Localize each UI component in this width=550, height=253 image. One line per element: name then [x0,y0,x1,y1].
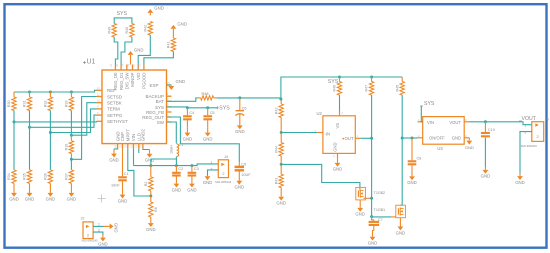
ground GND below U1 GND2 pin [143,149,154,163]
svg-text:GND2: GND2 [141,128,146,141]
svg-text:GND: GND [407,180,417,185]
svg-text:C7: C7 [378,218,383,222]
ground GND below R36 [46,183,56,201]
ground GND below C8 [407,171,417,185]
wire col1 down [13,122,15,170]
wire R42 to U1 VID pin [138,35,150,65]
svg-text:2: 2 [537,135,539,139]
capacitor C7 [369,217,383,233]
op-amp U2 [314,111,360,159]
svg-text:U3: U3 [437,146,443,151]
wire R10 bottom to U1 SETSD [71,97,96,160]
svg-text:SETPG: SETPG [107,113,123,118]
wire col4 tap to U1 SETBK [71,103,96,136]
net label SYS (rail) [325,77,338,85]
wire C10 to ground [484,139,486,167]
svg-text:GND: GND [109,157,119,162]
voltage regulator U3 [418,117,470,151]
svg-text:R2: R2 [144,182,148,187]
wire SYS bracket to R49/R40 [114,18,132,24]
wire U1 VIN to input bus [133,149,135,166]
svg-text:M20-9990246: M20-9990246 [521,144,538,148]
svg-text:10uH: 10uH [170,145,174,154]
svg-text:GND: GND [146,227,156,232]
svg-text:VIN: VIN [131,134,136,141]
svg-text:REF: REF [107,88,116,93]
resistor R36 [44,170,53,184]
svg-text:BAT: BAT [156,99,165,104]
svg-text:R31: R31 [23,101,27,108]
svg-text:GND: GND [46,197,56,202]
junction rail at R47 [370,76,373,79]
svg-text:SYS: SYS [117,11,128,17]
ground GND above U1 MINOP pin [128,47,144,64]
svg-text:GND: GND [276,201,286,206]
svg-text:R42: R42 [143,25,147,32]
svg-text:10nF: 10nF [111,183,120,187]
ground GND below J4 pin2 [203,176,213,186]
junction T1G$1 gate / C7 [370,215,373,218]
wire L1 bottom to bus [175,157,177,166]
resistor R49 [107,24,116,38]
wire U1 SW to L1 [167,122,177,143]
resistor R41 [167,38,176,52]
svg-text:GND: GND [98,241,108,246]
svg-text:C6: C6 [242,107,247,111]
op-amp U1 ADP5092 energy harvester [83,59,172,149]
svg-text:T1G$2: T1G$2 [374,191,386,195]
svg-text:10UF: 10UF [241,173,251,177]
svg-text:GND: GND [203,136,213,141]
transistor T1G$1 [374,205,406,224]
svg-text:T1G$1: T1G$1 [374,208,386,212]
svg-text:GND: GND [355,212,365,217]
svg-text:R45: R45 [395,85,399,92]
junction bus at C2 [175,164,178,167]
junction C8 [411,137,414,140]
wire SYS to U3 VIN [421,106,422,122]
ground GND below C1 [118,188,128,203]
resistor R44 [274,133,283,165]
junction col1 tap [13,120,16,123]
svg-text:R34: R34 [7,173,11,180]
svg-text:GND: GND [154,5,164,10]
svg-text:R10: R10 [65,144,69,151]
svg-text:DIS_SW: DIS_SW [125,72,130,90]
svg-text:VS: VS [335,123,340,129]
capacitor C4 [183,108,194,128]
svg-text:SYS: SYS [219,106,230,112]
junction BAT rail corner [279,98,282,101]
junction R2/R6 midpoint [149,195,152,198]
wire J2 pin1 to ground [93,225,104,227]
wire col2 tap to U1 SETPG [30,111,97,128]
wire R45 down to ON/OFF junction [401,95,403,138]
svg-text:SYS: SYS [424,101,435,107]
svg-text:R42: R42 [274,108,278,115]
svg-text:GND: GND [235,185,245,190]
svg-text:C9: C9 [241,162,246,166]
capacitor C9 [235,162,252,178]
svg-text:M20-9990246: M20-9990246 [215,180,232,184]
wire R47 down to OUT junction [371,95,373,138]
junction bus at C3 [190,164,193,167]
svg-text:U2: U2 [317,111,323,116]
svg-text:EXP: EXP [149,83,158,88]
ground GND at U3 GND pin [465,138,474,150]
svg-text:SW: SW [157,120,165,125]
svg-text:SETSD: SETSD [107,94,123,99]
svg-text:GND: GND [481,174,491,179]
svg-text:1: 1 [98,222,100,226]
junction SYS bus at C4 [186,106,189,109]
junction col2 tap [28,126,31,129]
net label SYS (top left) [117,11,128,17]
ground GND above R42 [147,5,163,15]
resistor R37 [65,170,74,184]
wire col2 down [29,127,31,170]
svg-text:C2: C2 [178,167,183,171]
svg-text:M20-9990245: M20-9990245 [82,238,99,242]
resistor R10 [65,135,74,159]
svg-text:VIN: VIN [427,120,434,125]
svg-text:J2: J2 [81,217,85,221]
svg-text:R33: R33 [65,101,69,108]
svg-text:GND: GND [177,21,187,26]
svg-text:2: 2 [524,130,526,134]
svg-text:R41: R41 [167,42,171,49]
net label SYS (mid) [216,106,230,112]
wire U1 MPPT to R2/R6 midpoint [128,149,151,196]
wire U3 VOUT rail [470,122,532,125]
svg-text:R37: R37 [65,173,69,180]
resistor R31 [23,92,32,111]
ground GND below C4 [183,127,193,141]
svg-text:R32: R32 [44,101,48,108]
wire col1 tap to U1 SETHYST [14,111,97,122]
svg-text:2: 2 [87,234,89,238]
capacitor C2 [172,166,183,181]
resistor R34 [7,170,16,184]
svg-text:GND: GND [145,158,155,163]
wire input bus [134,164,219,166]
svg-text:GND: GND [333,142,338,151]
origin crosshair [98,195,106,203]
net label VOUT [519,116,537,122]
junction top bus at R33 [70,91,73,94]
svg-text:R40: R40 [125,27,129,34]
svg-text:GND: GND [333,167,343,172]
inductor L1 [170,143,184,157]
ground GND below C10 [481,167,491,179]
wire col3 down [49,133,51,170]
svg-text:SETBK: SETBK [107,101,122,106]
junction SYS bus at C5 [206,106,209,109]
svg-text:C10: C10 [488,128,495,132]
wire R47 net down [371,138,373,216]
svg-text:GND: GND [176,79,186,84]
connector J2 [81,217,101,243]
svg-text:C1: C1 [124,172,129,176]
svg-text:-IN: -IN [325,132,331,137]
ground GND below U1 GND pin [109,149,119,163]
svg-text:MPPT: MPPT [126,129,131,142]
svg-text:GND: GND [368,241,378,246]
svg-text:R35: R35 [23,173,27,180]
capacitor C3 [188,166,199,181]
svg-text:2: 2 [222,172,224,176]
svg-text:GND: GND [118,198,128,203]
svg-text:U1: U1 [87,59,96,66]
wire BAT rail riser and top rail [281,77,402,99]
ground GND below J5 pin2 [515,173,525,185]
resistor R2 [144,166,153,196]
wire U1 SYS bus [167,106,218,109]
junction bus at R2 [149,164,152,167]
resistor R42 [143,22,152,36]
ground GND below R6 [146,217,156,232]
svg-text:J5: J5 [545,118,549,122]
svg-text:R36: R36 [44,173,48,180]
resistor R40 [125,24,134,38]
junction R45 net / ON-OFF wire [401,137,404,140]
wire L1 bottom branch to R2 top [151,159,177,166]
wire top bus to U1 REF pin [14,90,97,92]
svg-text:MINOP: MINOP [130,72,135,86]
svg-text:J4: J4 [224,155,228,159]
svg-text:1: 1 [524,124,526,128]
ground GND below J2 pin2 [98,235,108,247]
svg-text:GND: GND [183,136,193,141]
capacitor C5 [203,108,214,128]
capacitor C1 [111,149,129,188]
svg-text:GND: GND [25,197,35,202]
resistor R43 [274,164,283,194]
ground GND below C6 [235,125,245,135]
junction T1G$2 source on R47 net [370,197,373,200]
svg-text:R30: R30 [7,101,11,108]
svg-text:PGOOD: PGOOD [142,73,147,89]
wire R40 to U1 REG_D1 pin [121,37,132,65]
svg-text:ON/OFF: ON/OFF [429,136,445,141]
svg-text:GND: GND [396,230,406,235]
ground GND below T1G$2 [355,204,365,217]
ground GND below R37 [67,183,77,201]
ground GND right of J2 pin1 [104,223,119,233]
wire BAT rail to middle section [217,97,281,99]
ground GND below R43 [276,194,286,206]
resistor R6 [149,196,159,217]
svg-text:GND: GND [67,197,77,202]
net label SYS (U3 supply) [420,101,435,107]
resistor R42b [274,99,283,132]
svg-text:C5: C5 [210,111,215,115]
junction VOUT at C10 [484,120,487,123]
junction top bus at R31 [28,91,31,94]
ground GND below C7 [368,233,378,246]
wire tap to T1G$2 gate [281,164,360,187]
ground GND below R34 [9,183,19,201]
junction top bus at R32 [49,91,52,94]
svg-text:R49: R49 [107,27,111,34]
junction R42/R44 tap [280,131,283,134]
svg-text:CBP: CBP [120,132,125,141]
svg-text:VOUT: VOUT [449,120,461,125]
svg-text:TERM: TERM [107,107,120,112]
svg-text:R44: R44 [274,146,278,153]
junction R44/R43 tap [280,163,283,166]
resistor R30 [7,92,16,111]
ground GND at U1 EXP pin [167,79,186,90]
svg-text:R48: R48 [202,92,209,96]
wire R45 net down to T1G$1 drain [401,138,403,205]
svg-text:GND: GND [235,129,245,134]
resistor R35 [23,170,32,184]
resistor R33 [65,92,74,111]
svg-text:GND: GND [203,180,213,185]
svg-text:OUT: OUT [345,136,354,141]
svg-text:GND: GND [452,136,461,141]
wire R41 to U1 PGOOD pin [144,52,174,65]
ground GND below U2 [333,158,343,171]
svg-text:C8: C8 [417,156,422,160]
resistor R47 [365,77,374,95]
wire gate T1G$1 to C7 node [372,216,391,218]
svg-text:R6: R6 [154,207,158,212]
wire J5 pin2 to ground [520,132,532,173]
svg-text:1: 1 [211,160,213,164]
wire tap to U2 -IN [281,132,318,134]
resistor R48 [198,92,217,100]
junction col3 tap [49,131,52,134]
svg-text:C4: C4 [189,111,194,115]
svg-text:R46: R46 [333,85,337,92]
ground GND below R35 [25,183,35,201]
svg-text:GND: GND [465,145,474,150]
junction R10 bottom [70,158,73,161]
resistor R46 [333,77,342,95]
junction rail at R46 [338,76,341,79]
wire U1 BAT to R48 [167,98,198,101]
ground GND below C9 [235,178,245,190]
svg-text:GND: GND [172,187,182,192]
svg-text:GND: GND [9,197,19,202]
ground GND below C2 [172,181,182,192]
wire U1 REG_OUT to C9 [167,117,240,162]
connector J4 [211,155,232,184]
wire U1 LLD stub [138,149,140,153]
junction OUT/R47 [370,137,373,140]
wire R46 to U2 VS [339,95,341,111]
wire col4 down [70,159,72,170]
wire J4 pin2 to ground [208,170,219,176]
wire U2 OUT to R47 net [360,137,371,139]
wire R49 to U1 REG_D0 pin [114,37,118,65]
svg-text:GND: GND [134,47,144,52]
ground GND above R41 [171,21,187,38]
wire col3 tap to U1 TERM [50,109,96,133]
ground GND below T1G$1 [396,225,406,236]
svg-text:GND: GND [187,187,197,192]
transistor T1G$2 [356,187,385,204]
ground GND below C5 [203,127,213,141]
svg-text:GND: GND [114,223,119,233]
junction BAT rail at C6 [238,96,241,99]
svg-text:REG_D1: REG_D1 [119,72,124,90]
connector J5 VOUT [521,118,549,148]
svg-text:R47: R47 [365,85,369,92]
svg-text:VID: VID [136,73,141,80]
svg-text:C3: C3 [194,167,199,171]
junction col4 tap [70,134,73,137]
svg-text:R43: R43 [274,178,278,185]
svg-text:SETHYST: SETHYST [107,119,128,124]
ground GND below C3 [187,181,197,192]
capacitor C6 [235,98,246,125]
wire to U3 ON/OFF [402,137,417,139]
capacitor C8 [408,138,422,171]
svg-text:GND: GND [515,180,525,185]
resistor R45 [395,77,404,95]
wire J2 pin2 to ground [93,232,103,234]
capacitor C10 [481,122,495,139]
resistor R32 [44,92,53,111]
